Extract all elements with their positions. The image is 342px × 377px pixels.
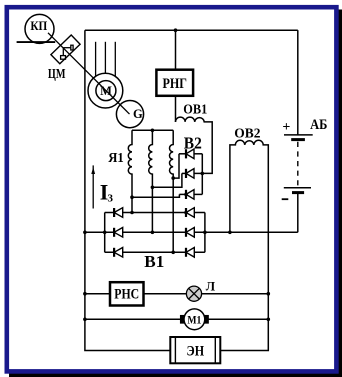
svg-text:РНГ: РНГ [162, 76, 187, 92]
wire: battery to bus [297, 194, 299, 233]
motor M1 brushes [181, 316, 208, 323]
B1 top row wire [105, 212, 205, 214]
shadow right [338, 10, 342, 377]
current I3 arrow [91, 165, 95, 208]
B2 diode VD2 [182, 169, 202, 179]
B1 diode top-right [186, 208, 194, 218]
armature winding 1 (phase 1) [128, 130, 132, 212]
motor M supply lines [96, 42, 116, 77]
B2 diode VD3 [179, 190, 202, 200]
wire: RNS row left [85, 293, 110, 295]
CM inner contact symbol [61, 45, 74, 59]
generator G circle [116, 101, 143, 128]
motor M circles [88, 73, 123, 108]
lamp L [186, 286, 201, 301]
B1 diode bottom-left [114, 248, 123, 258]
wire: RNS to lamp [144, 293, 187, 295]
svg-text:Я1: Я1 [108, 150, 124, 165]
svg-text:G: G [133, 107, 143, 121]
motor M1 circle [184, 309, 205, 330]
centrifugal mechanism CM diamond [51, 35, 80, 64]
battery dashed link [297, 142, 299, 186]
wheel pair KP circle [25, 14, 54, 43]
B2 diode VD1 [179, 149, 202, 159]
wire: lamp to OV2 drop [202, 293, 269, 295]
wire: B2 VD3 to phase1 [132, 194, 179, 197]
svg-text:+: + [282, 120, 290, 135]
B1 diode mid-left [114, 228, 123, 238]
svg-text:РНС: РНС [114, 287, 139, 303]
wire: RNG bottom lead [175, 96, 177, 122]
regulator RNG box [156, 70, 193, 96]
svg-text:В1: В1 [144, 252, 164, 271]
wire: left bus with bottom corner to EN [85, 30, 170, 350]
battery AB cell2 short plate [292, 191, 304, 194]
wire: RNG top lead [175, 30, 177, 69]
svg-text:3: 3 [107, 192, 113, 204]
shaft (diagonal drive line KP-CM-M-G) [48, 33, 130, 114]
inductor OV1 with wire to B2 rail [176, 117, 213, 173]
wire: main DC bus (middle row) [85, 231, 298, 233]
wire: B2 VD2 to phase2 [152, 173, 182, 187]
svg-text:АБ: АБ [310, 117, 327, 133]
wire: armature top bus [132, 129, 173, 131]
battery AB cell1 long plate [284, 134, 313, 136]
svg-text:ОВ1: ОВ1 [183, 102, 207, 117]
battery AB cell1 short plate [291, 138, 305, 141]
wire: right drop to battery [297, 30, 299, 135]
B1 left rail [104, 213, 106, 253]
inductor OV2 loop [220, 140, 268, 350]
regulator RNS box [110, 282, 144, 305]
svg-text:М1: М1 [187, 312, 201, 326]
shadow bottom [9, 373, 342, 377]
svg-text:ЦМ: ЦМ [48, 66, 66, 81]
B1 diode bottom-right [186, 248, 194, 258]
svg-text:ЭН: ЭН [187, 344, 205, 360]
B1 diode top-left [114, 208, 123, 218]
wire: M1 row right [208, 318, 268, 320]
B1 diode mid-right [186, 228, 194, 238]
svg-text:М: М [100, 84, 112, 98]
B1 bottom row wire [105, 251, 205, 253]
armature winding 3 (phase 3) [169, 130, 173, 252]
rail line [17, 41, 56, 43]
wire: B2 VD1 to phase3 node [173, 154, 179, 178]
heater EN box [170, 337, 220, 363]
armature winding 2 (phase 2) [149, 130, 153, 232]
svg-text:ОВ2: ОВ2 [234, 126, 260, 141]
svg-text:КП: КП [30, 19, 47, 33]
svg-text:Л: Л [206, 279, 216, 293]
B1 right rail [204, 213, 206, 253]
svg-text:В2: В2 [184, 134, 202, 153]
minus sign [282, 198, 289, 200]
battery AB cell2 long plate [284, 187, 311, 189]
wire: B2 right rail [201, 154, 203, 195]
wire: M1 row left [85, 318, 181, 320]
wire: top bus [85, 29, 298, 31]
